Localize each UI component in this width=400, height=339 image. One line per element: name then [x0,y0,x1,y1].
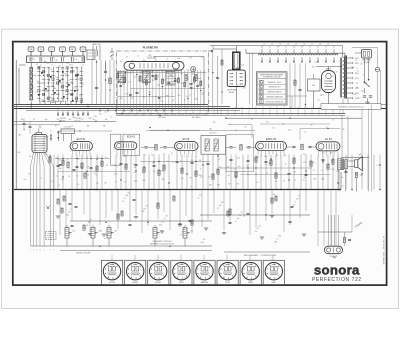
svg-text:5n: 5n [104,238,106,240]
resistor R63 [83,225,85,230]
resistor R60 [217,169,219,174]
svg-text:100k: 100k [45,91,49,93]
wire [270,155,272,190]
svg-text:1nF: 1nF [64,74,67,76]
wire [168,155,170,190]
svg-text:3: 3 [36,250,37,252]
wire [255,155,257,190]
wire [111,190,113,211]
wire [44,153,51,166]
capacitor C47 [191,161,194,163]
mains plug P1 [362,50,372,59]
svg-text:0,1: 0,1 [163,153,165,155]
svg-text:5: 5 [334,156,335,158]
shield box V3 [111,134,121,165]
svg-text:4: 4 [269,156,270,158]
svg-text:68p: 68p [117,73,120,75]
wire [89,190,91,232]
svg-text:4,7: 4,7 [181,74,183,76]
svg-text:68p: 68p [34,75,37,77]
potentiometer P1 1M [65,228,69,239]
svg-text:1nF: 1nF [282,124,285,126]
capacitor C74 [345,170,348,172]
svg-text:100k: 100k [66,62,70,64]
legend row [259,80,263,83]
junction [289,108,290,109]
svg-text:470: 470 [43,89,46,91]
wire [243,190,245,217]
svg-text:1nF: 1nF [301,47,304,49]
svg-text:33: 33 [332,120,334,122]
svg-text:0: 0 [356,68,357,70]
svg-text:2n: 2n [87,175,89,177]
tube V9 EM34 tuning indicator [233,52,240,69]
svg-text:47k: 47k [133,164,136,166]
junction [57,132,59,142]
svg-text:6,8k: 6,8k [17,152,20,154]
resistor R76 [310,161,312,166]
capacitor C70 [322,158,325,160]
wire [57,155,59,190]
wire [30,63,32,68]
fuse F1 [375,67,379,71]
svg-text:1nF: 1nF [284,155,287,157]
svg-text:EABC80: EABC80 [201,281,208,284]
svg-text:220: 220 [140,72,143,74]
svg-text:SECTEUR: SECTEUR [362,60,371,62]
resistor R46 [143,167,145,172]
svg-text:47k: 47k [72,70,75,72]
wire [135,190,137,215]
svg-text:ECH81: ECH81 [155,282,161,284]
svg-text:2n: 2n [96,175,98,177]
capacitor C15 [152,75,155,77]
wire [99,190,101,225]
capacitor C57 [247,159,250,161]
choke L17 [314,54,322,55]
capacitor C22 [174,80,177,82]
svg-text:47: 47 [309,47,311,49]
svg-text:220: 220 [303,154,306,156]
svg-text:47k: 47k [86,225,89,227]
capacitor C69 [129,223,132,225]
svg-text:33: 33 [283,181,285,183]
svg-text:220: 220 [365,83,368,85]
svg-text:68p: 68p [169,84,172,86]
resistor R20 [185,75,187,81]
svg-text:EF89: EF89 [179,282,184,284]
wire [202,155,204,190]
junction [235,189,237,191]
wire [165,70,167,109]
junction [361,173,362,174]
svg-text:5n: 5n [137,56,139,58]
capacitor C44 [176,160,179,162]
wire [235,155,237,190]
resistor R63 [235,172,237,177]
svg-text:ANT. FM: ANT. FM [93,43,101,46]
svg-text:470: 470 [331,161,334,163]
wire [379,155,381,190]
svg-text:10n: 10n [199,195,202,197]
choke L19 [330,54,338,55]
transformer tap 285V [347,62,353,64]
wire [300,155,302,190]
wire bus [246,52,345,54]
resistor R99 [227,211,229,216]
svg-text:10n: 10n [29,156,32,158]
wire [154,56,204,58]
svg-text:6,8k: 6,8k [209,185,212,187]
capacitor C30 [363,95,366,97]
tube socket EM34 [240,260,261,284]
svg-text:1nF: 1nF [23,179,26,181]
resistor R90 [63,196,65,201]
svg-text:220: 220 [123,77,126,79]
wire [157,190,159,219]
svg-text:L2: L2 [271,44,273,46]
svg-text:68p: 68p [59,168,62,170]
svg-text:50: 50 [241,212,243,214]
wire [373,155,375,190]
capacitor C91 [75,205,78,207]
svg-text:100k: 100k [236,68,240,70]
wire [260,155,262,190]
junction [175,78,176,79]
resistor R33 [62,160,64,165]
wire [117,70,119,109]
svg-text:6,8k: 6,8k [195,99,198,101]
junction [125,189,127,191]
transformer tap 110V [347,97,353,99]
svg-text:10n: 10n [160,101,163,103]
svg-text:5n: 5n [105,157,107,159]
svg-text:33: 33 [298,196,300,198]
svg-text:220: 220 [200,177,203,179]
svg-text:22n: 22n [39,127,42,129]
wire [118,72,207,74]
capacitor C34 [120,162,123,164]
svg-text:0,5: 0,5 [163,71,165,73]
svg-text:2M2: 2M2 [88,222,91,224]
svg-text:220: 220 [106,165,109,167]
capacitor C27 [76,165,79,167]
svg-text:5n: 5n [82,84,84,86]
resistor R102 [275,196,277,201]
wire [367,155,369,190]
switch contact grid [37,67,83,103]
resistor R45 [294,80,296,85]
ground [88,233,92,235]
capacitor C103 [291,205,294,207]
svg-text:7: 7 [280,156,281,158]
svg-text:68p: 68p [76,90,79,92]
wire [153,155,155,190]
svg-text:0,5: 0,5 [146,76,148,78]
potentiometer P4 50k [153,228,157,239]
svg-text:2nF: 2nF [69,119,72,121]
svg-text:50: 50 [180,161,182,163]
svg-text:68p: 68p [126,195,129,197]
svg-text:4,7: 4,7 [90,219,92,221]
FM coil L2 [143,71,151,83]
resistor R96 [173,196,175,201]
wire [223,190,225,231]
wire [200,70,202,109]
wire [152,70,154,109]
junction [212,72,213,73]
IF transformer T2 [201,136,226,155]
svg-text:0,1: 0,1 [57,94,59,96]
potentiometer P2 500k [91,228,95,239]
svg-text:22n: 22n [317,100,320,102]
coil L3 [61,129,75,134]
svg-text:6AF7: 6AF7 [272,281,277,284]
transformer T-power winding [343,57,345,97]
wire [191,155,193,190]
svg-text:ECH 81: ECH 81 [77,138,86,141]
svg-text:50: 50 [140,81,142,83]
capacitor C17 [229,146,232,148]
svg-text:10: 10 [317,47,319,49]
junction [191,189,193,191]
svg-text:10n: 10n [341,177,344,179]
choke L12 [274,54,282,55]
ground [102,233,106,235]
resistor R26 [301,144,303,150]
svg-text:2n: 2n [190,186,192,188]
svg-text:5n: 5n [51,181,53,183]
junction [235,176,236,177]
svg-text:2n: 2n [295,202,297,204]
wire [230,155,232,190]
junction [379,189,381,191]
svg-text:50: 50 [266,173,268,175]
wire [58,130,112,132]
wire [169,190,171,230]
potentiometer P5 1M [183,228,187,239]
wire [310,155,312,190]
svg-text:PLATINE FM: PLATINE FM [143,47,158,50]
svg-text:0,5: 0,5 [197,198,199,200]
junction [53,189,55,191]
svg-text:5n: 5n [97,157,99,159]
junction [337,182,338,183]
svg-text:6,8k: 6,8k [114,173,117,175]
svg-text:5n: 5n [303,180,305,182]
svg-text:4,7: 4,7 [277,238,279,240]
svg-text:33: 33 [51,86,53,88]
svg-text:4,7k: 4,7k [122,84,125,86]
wire [197,70,199,109]
resistor R30 [49,157,51,162]
switch button S3 OC [49,47,55,51]
wire [155,70,157,109]
wire [283,190,285,232]
svg-text:47k: 47k [322,153,325,155]
capacitor C5 [120,85,123,87]
resistor R17 [145,80,147,85]
tube V1 UCC85 FM front-end [124,62,184,71]
resistor R66 [255,157,257,162]
junction [62,176,63,177]
capacitor C94 [133,198,136,200]
svg-text:0,5: 0,5 [324,90,326,92]
svg-text:47: 47 [325,47,327,49]
wire [293,155,295,190]
svg-text:CAV AVC VOLUME: CAV AVC VOLUME [76,251,92,254]
svg-text:5n: 5n [61,68,63,70]
svg-text:470: 470 [203,239,206,241]
resistor R68 [117,214,119,219]
junction [47,207,49,209]
transformer core [344,56,346,99]
svg-text:EL84: EL84 [225,282,229,284]
junction [96,158,97,159]
svg-text:0,5: 0,5 [70,209,72,211]
resistor R50 [163,165,165,170]
resistor R93 [121,211,123,216]
svg-text:220: 220 [161,221,164,223]
legend row [259,90,263,93]
wire [212,155,214,190]
svg-text:50: 50 [81,67,83,69]
wire [117,190,119,229]
svg-text:68p: 68p [44,61,47,63]
svg-text:1nF: 1nF [275,155,278,157]
wire [142,70,144,109]
svg-text:6,8: 6,8 [293,47,295,49]
svg-text:ECH 81: ECH 81 [127,137,136,139]
capacitor C19 [292,145,295,147]
svg-text:1nF: 1nF [128,72,131,74]
transformer tap 6,3V [347,57,353,59]
svg-text:1nF: 1nF [356,87,359,89]
svg-text:2n: 2n [50,131,52,133]
svg-text:0,5: 0,5 [342,185,344,187]
svg-text:5n: 5n [111,117,113,119]
junction [96,189,98,191]
wire [31,153,34,166]
wire [81,155,83,190]
svg-text:50: 50 [172,161,174,163]
transformer tap 220V [347,87,353,89]
svg-text:50: 50 [251,119,253,121]
wire [147,190,149,226]
svg-text:68p: 68p [162,179,165,181]
wire [76,155,78,190]
svg-text:4,7: 4,7 [124,181,126,183]
svg-text:TENSION + 250 V: TENSION + 250 V [268,82,283,84]
svg-text:0,1: 0,1 [68,79,70,81]
wire [39,101,41,105]
svg-text:PERFECTION 722: PERFECTION 722 [312,277,362,283]
svg-text:6: 6 [83,64,84,66]
svg-text:0,5: 0,5 [326,127,328,129]
svg-text:4,7: 4,7 [36,64,38,66]
svg-text:APPAREILS 110 A 245 VOLTS: APPAREILS 110 A 245 VOLTS [150,242,175,245]
svg-text:22n: 22n [255,231,258,233]
svg-text:sonora: sonora [314,263,360,278]
svg-text:4,7: 4,7 [79,78,81,80]
svg-text:472 kc/s: 472 kc/s [64,127,71,129]
svg-text:0,1: 0,1 [172,100,174,102]
capacitor C30 [90,166,93,168]
svg-text:1nF: 1nF [86,166,89,168]
legend row [259,100,263,103]
svg-text:2M2: 2M2 [243,88,246,90]
svg-text:50: 50 [327,85,329,87]
svg-text:220: 220 [208,176,211,178]
resistor R88 [271,198,273,203]
svg-text:33: 33 [41,100,43,102]
svg-text:L9: L9 [327,44,329,46]
svg-text:2: 2 [180,156,181,158]
capacitor C29 [196,85,199,87]
svg-text:2M2: 2M2 [49,97,52,99]
svg-text:0,5: 0,5 [40,83,42,85]
resistor R82 [355,173,357,178]
svg-text:ECH81: ECH81 [132,282,138,284]
svg-text:100k: 100k [192,74,196,76]
wire [361,155,363,190]
wire [245,49,247,53]
svg-text:2M2: 2M2 [351,67,354,69]
junction [49,155,50,156]
svg-text:47k: 47k [228,175,231,177]
svg-text:47k: 47k [117,82,120,84]
svg-text:RACCORDEMENT — TOURNE-DISQUES: RACCORDEMENT — TOURNE-DISQUES [244,254,277,257]
svg-text:1nF: 1nF [296,199,299,201]
svg-text:470: 470 [236,183,239,185]
resistor R34 [200,81,202,86]
tube socket ECH81 [125,260,146,284]
junction [187,98,188,99]
wire [341,115,343,158]
wire [49,155,51,190]
svg-text:22n: 22n [73,87,76,89]
svg-text:2M2: 2M2 [148,55,151,57]
svg-text:2n: 2n [166,59,168,61]
ground [204,227,208,229]
choke L13 [282,54,290,55]
resistor R27 [177,78,179,83]
svg-text:22n: 22n [161,171,164,173]
svg-text:6,8k: 6,8k [312,67,315,69]
svg-text:47k: 47k [321,95,324,97]
wire [158,155,160,190]
svg-text:470: 470 [137,93,140,95]
resistor R4 [30,84,33,88]
junction [153,161,154,162]
svg-text:470: 470 [213,122,216,124]
svg-text:33: 33 [363,74,365,76]
wire [345,155,347,190]
wire [101,155,103,190]
tube socket EL84 [217,260,238,284]
svg-text:220: 220 [114,165,117,167]
switch button S5 BE [69,47,75,51]
svg-text:0,1: 0,1 [189,95,191,97]
wire [163,155,165,190]
wire [42,153,45,166]
svg-text:L7: L7 [311,44,313,46]
wire [327,155,329,190]
wire [171,70,173,109]
tube socket EF89 [171,260,192,284]
wire [184,70,186,109]
svg-text:15p: 15p [93,119,96,121]
